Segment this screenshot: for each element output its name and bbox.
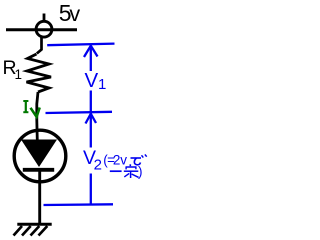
V2 arrow head [86, 114, 97, 124]
ground hatch 1 [14, 226, 23, 236]
voltage source terminal circle [36, 21, 52, 37]
kanji tei roof dot [129, 164, 131, 166]
V1 arrow head [84, 46, 98, 57]
svg-text:v: v [69, 2, 80, 26]
wire resistor to diode [37, 92, 38, 141]
node line middle blue [46, 112, 113, 113]
wire diode to ground [38, 171, 41, 224]
svg-text:V: V [85, 69, 99, 92]
svg-text:1: 1 [15, 67, 23, 82]
diode D1 triangle [21, 140, 57, 168]
kanji tei vertical [130, 171, 132, 178]
current arrow I head [31, 108, 40, 117]
node line bottom blue [44, 203, 114, 206]
ground hatch 2 [22, 226, 31, 236]
diode D1 cathode bar [23, 168, 54, 172]
dakuten marks [142, 154, 147, 157]
V1 line lower segment [90, 91, 92, 148]
V1 measure line [90, 46, 92, 72]
svg-text:(=2v: (=2v [103, 152, 127, 167]
wire top rail [6, 28, 77, 31]
ground hatch 3 [31, 226, 40, 236]
ground bar [17, 223, 51, 226]
kanji tei left leg [124, 173, 129, 177]
svg-text:1: 1 [98, 76, 106, 93]
label I current [23, 101, 28, 112]
kanji ichi bar [110, 170, 122, 172]
voltage source top tick [43, 14, 46, 22]
kanji tei long bar [124, 170, 139, 172]
V2 line lower segment [90, 174, 92, 205]
ground hatch 4 [39, 226, 48, 236]
svg-text:2: 2 [94, 156, 102, 173]
wire from source to resistor [37, 38, 42, 54]
kanji tei press stroke [132, 174, 139, 177]
node line top blue [47, 44, 114, 46]
diode D1 circle [14, 130, 66, 182]
svg-text:): ) [138, 164, 143, 179]
hiragana de body [134, 158, 140, 165]
hiragana de stroke top [131, 157, 142, 159]
kanji tei roof bar [126, 167, 137, 169]
resistor R1 zigzag [27, 54, 52, 92]
